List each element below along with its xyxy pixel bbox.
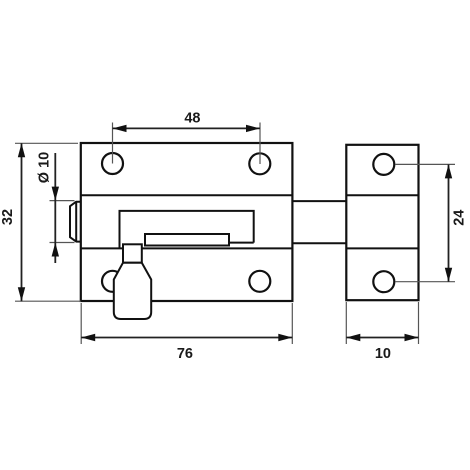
- bolt rod to keeper: [292, 201, 346, 243]
- plate upper inner line: [81, 194, 293, 196]
- dimension 32 line: [21, 143, 23, 301]
- dimension 32 arrow bottom: [18, 287, 25, 301]
- dimension 48 arrow left: [113, 125, 127, 132]
- mounting hole top-left: [102, 153, 123, 174]
- knob body: [114, 263, 151, 319]
- svg-text:48: 48: [184, 111, 200, 127]
- keeper upper divider: [346, 194, 418, 196]
- bolt end cap protruding left: [70, 202, 81, 242]
- dimension 76 extension lines: [81, 303, 292, 344]
- dimension 48 extension lines: [113, 123, 261, 165]
- bolt window: [145, 234, 229, 246]
- dimension 76 arrow left: [81, 334, 95, 341]
- dimension 10 arrow left: [346, 334, 360, 341]
- keeper hole top: [373, 154, 394, 175]
- dimension diameter 10 extension lines: [50, 201, 75, 243]
- mounting hole bottom-right: [249, 271, 270, 292]
- dimension 48 line: [113, 127, 261, 129]
- dimension 10 extension lines: [346, 302, 418, 344]
- dimension diameter 10 arrow upper: [52, 187, 59, 201]
- bolt guide housing: [120, 211, 254, 249]
- dimension 24 arrow bottom: [445, 268, 452, 282]
- dimension 10 line: [346, 337, 418, 339]
- dimension 48 arrow right: [246, 125, 260, 132]
- keeper hole bottom: [373, 271, 394, 292]
- svg-text:Ø 10: Ø 10: [37, 152, 53, 183]
- dimension 24 leader lines: [395, 164, 455, 281]
- knob stem: [123, 244, 142, 262]
- dimension 24 arrow top: [445, 164, 452, 178]
- mounting hole bottom-left: [102, 271, 123, 292]
- dimension 32 arrow top: [18, 143, 25, 157]
- dimension 24 line: [448, 164, 450, 281]
- svg-text:10: 10: [375, 346, 391, 362]
- plate lower inner line: [81, 247, 293, 249]
- dimension 10 arrow right: [405, 334, 419, 341]
- bolt step line: [229, 242, 254, 244]
- dimension diameter 10 line: [54, 153, 56, 263]
- dimension diameter 10 arrow lower: [52, 243, 59, 257]
- svg-text:32: 32: [0, 209, 16, 225]
- keeper lower divider: [346, 247, 418, 249]
- dimension 76 arrow right: [278, 334, 292, 341]
- main plate body: [81, 143, 293, 301]
- dimension 32 extension lines: [15, 143, 81, 301]
- mounting hole top-right: [249, 153, 270, 174]
- svg-text:76: 76: [177, 346, 193, 362]
- dimension 76 line: [81, 337, 292, 339]
- svg-text:24: 24: [452, 210, 468, 226]
- keeper plate: [346, 145, 418, 300]
